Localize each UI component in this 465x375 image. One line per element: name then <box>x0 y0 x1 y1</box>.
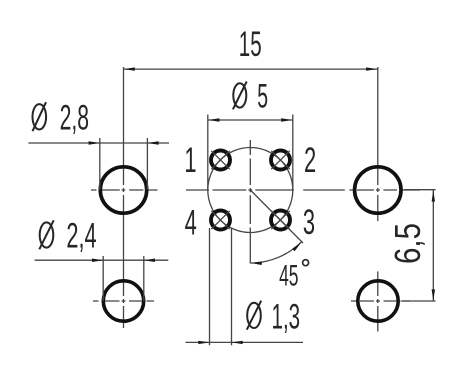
dimension Ø5 text diameter symbol <box>233 82 247 110</box>
dimension Ø2,8 right arrow <box>147 141 158 144</box>
dimension Ø2,8 left arrow <box>89 141 100 144</box>
dimension 15 line <box>123 68 377 70</box>
45 degree arc <box>250 242 302 263</box>
dimension Ø2,8 <box>28 138 169 190</box>
svg-text:2,8: 2,8 <box>60 97 89 137</box>
dimension 6,5 top arrow <box>432 190 435 201</box>
centerline horizontal top-left circle <box>91 189 158 191</box>
45 degree arc bottom arrow <box>251 262 262 265</box>
45 degree leader diagonal <box>250 190 303 243</box>
centerline horizontal connector row <box>186 189 420 191</box>
centerline right column vertical upper <box>377 67 379 221</box>
dimension Ø1,3 right arrow <box>232 341 243 344</box>
svg-text:4: 4 <box>185 203 197 243</box>
dimension 6,5 bottom arrow <box>432 289 435 300</box>
hole Ø2.8 top-right circle <box>355 167 401 213</box>
hole Ø2.4 bottom-right circle <box>358 281 398 321</box>
svg-text:3: 3 <box>303 203 315 243</box>
dimension 15 left arrow <box>124 67 135 70</box>
svg-text:15: 15 <box>239 24 262 64</box>
centerline right column vertical lower <box>377 271 379 331</box>
dimension Ø2,4 <box>35 256 169 301</box>
pin 3 circle <box>271 211 290 230</box>
centerline horizontal bottom-left circle <box>93 300 154 302</box>
hole Ø2.8 top-left circle <box>100 167 146 213</box>
svg-text:5: 5 <box>257 77 268 115</box>
dimension Ø2,4 left arrow <box>92 259 103 263</box>
hole Ø2.4 bottom-left circle <box>103 281 143 321</box>
dimension 15 right arrow <box>366 67 377 70</box>
centerline horizontal bottom-right circle <box>351 300 410 302</box>
svg-text:2,4: 2,4 <box>66 216 96 256</box>
svg-text:45: 45 <box>279 259 298 292</box>
pin 3 cross mark <box>271 211 289 229</box>
svg-text:6,5: 6,5 <box>387 223 428 264</box>
dimension Ø5 left arrow <box>208 118 219 121</box>
dimension Ø2,4 right arrow <box>144 259 155 263</box>
pin 1 cross mark <box>211 151 229 169</box>
pitch circle Ø5 <box>208 148 293 233</box>
dimension 6,5 <box>403 190 436 301</box>
dimension Ø1,3 text diameter symbol <box>247 301 261 330</box>
dimension Ø5 right arrow <box>281 118 292 121</box>
dimension 45 degree symbol <box>303 260 309 266</box>
pin 4 circle <box>211 211 230 230</box>
pin 2 circle <box>271 151 290 170</box>
svg-text:1: 1 <box>184 141 196 181</box>
pin 2 cross mark <box>271 151 289 169</box>
svg-text:1,3: 1,3 <box>272 296 301 336</box>
45 degree arc upper arrow <box>292 242 301 251</box>
dimension Ø1,3 left arrow <box>198 341 209 344</box>
svg-text:2: 2 <box>304 141 316 181</box>
dimension Ø2,8 text diameter symbol <box>33 102 47 131</box>
dimension Ø1,3 <box>186 228 304 345</box>
pin 4 cross mark <box>211 211 229 229</box>
connector vertical centerline <box>249 140 251 264</box>
pin 1 circle <box>211 151 230 170</box>
centerline left column vertical <box>123 67 125 328</box>
dimension Ø5 <box>208 115 293 191</box>
dimension Ø2,4 text diameter symbol <box>39 220 53 249</box>
